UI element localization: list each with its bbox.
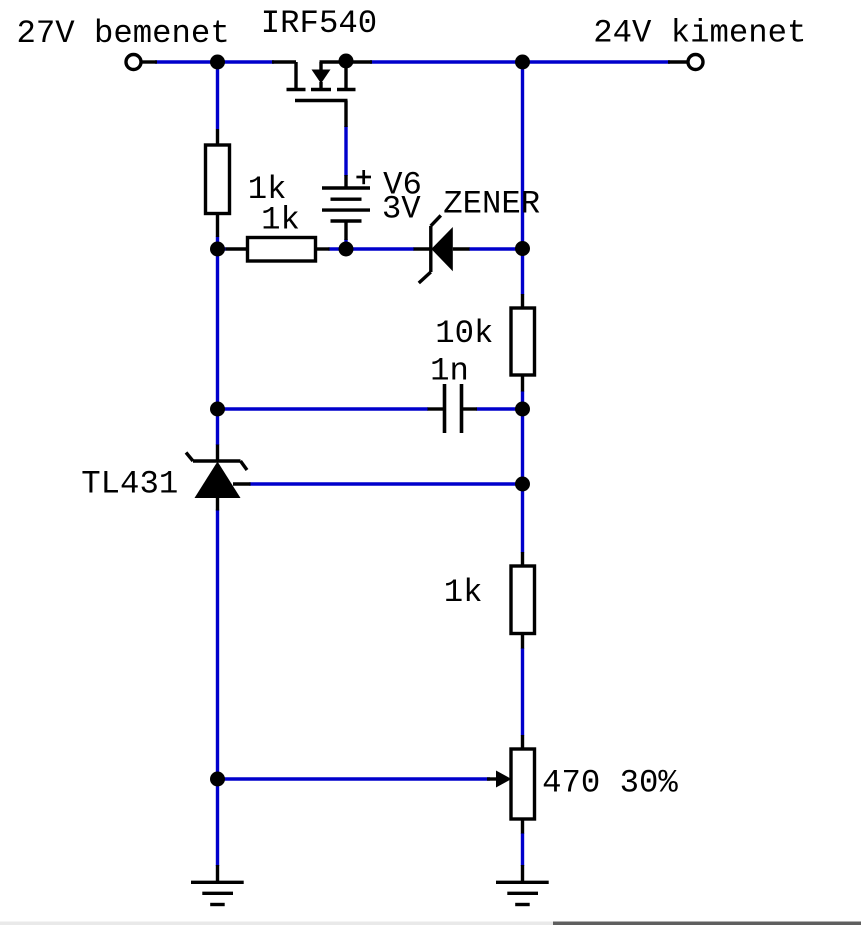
svg-text:TL431: TL431: [81, 466, 178, 503]
svg-text:27V bemenet: 27V bemenet: [17, 15, 230, 52]
svg-text:3V: 3V: [382, 191, 421, 228]
svg-text:24V kimenet: 24V kimenet: [593, 15, 806, 52]
svg-text:1k: 1k: [444, 574, 483, 611]
svg-text:ZENER: ZENER: [443, 186, 540, 223]
svg-text:10k: 10k: [435, 315, 493, 352]
svg-text:IRF540: IRF540: [261, 5, 377, 42]
svg-text:470 30%: 470 30%: [542, 765, 678, 802]
svg-text:1k: 1k: [261, 202, 300, 239]
svg-text:1n: 1n: [430, 353, 469, 390]
